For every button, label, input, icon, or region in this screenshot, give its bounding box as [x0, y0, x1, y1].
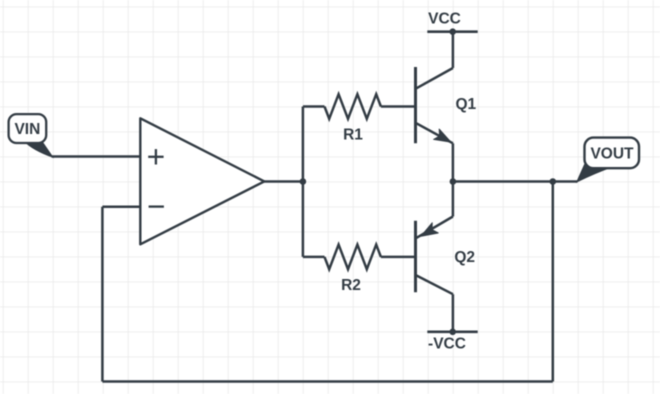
wire feedback from op-amp inverting input [102, 206, 140, 209]
wire branch to R1 [303, 105, 325, 108]
label Q1 [455, 96, 476, 113]
wire feedback right vertical [552, 182, 555, 382]
label R1 [343, 127, 363, 144]
svg-text:VCC: VCC [428, 10, 461, 27]
node junction Q1/Q2 output [450, 178, 457, 185]
node feedback junction [550, 178, 557, 185]
wire feedback left vertical [101, 207, 104, 382]
power VCC rail [427, 30, 477, 33]
svg-text:R2: R2 [341, 277, 361, 294]
wire Q1 collector to VCC [452, 32, 455, 68]
node VIN callout [9, 114, 53, 157]
svg-text:Q2: Q2 [454, 249, 475, 266]
node junction at op-amp output [300, 178, 307, 185]
wire Q2 emitter to output node [452, 182, 455, 217]
node -VCC junction [449, 329, 456, 336]
wire VIN to op-amp non-inverting input [52, 155, 141, 158]
wire Q2 collector to -VCC [452, 294, 455, 332]
wire R2 to Q2 base [381, 256, 414, 259]
label -VCC [428, 335, 466, 352]
wire branch vertical (R1/R2 split) [302, 107, 305, 257]
label VCC [428, 10, 461, 27]
wire op-amp output to branch node [264, 180, 303, 183]
label Q2 [454, 249, 475, 266]
node VCC junction [449, 28, 456, 35]
transistor Q2 [416, 217, 453, 295]
resistor R2 [325, 245, 381, 270]
wire branch to R2 [303, 256, 325, 259]
power -VCC rail [427, 330, 477, 333]
node VOUT callout [577, 138, 639, 182]
svg-text:R1: R1 [343, 127, 363, 144]
resistor R1 [325, 94, 381, 119]
transistor Q1 [416, 67, 453, 143]
wire Q1 emitter to output node [452, 143, 455, 181]
label R2 [341, 277, 361, 294]
wire R1 to Q1 base [381, 105, 414, 108]
svg-text:VOUT: VOUT [590, 146, 634, 163]
svg-text:VIN: VIN [14, 121, 40, 138]
op-amp U1 [140, 118, 264, 244]
wire feedback bottom horizontal [102, 380, 552, 383]
svg-text:-VCC: -VCC [428, 335, 466, 352]
wire output node to VOUT [453, 180, 578, 183]
svg-text:Q1: Q1 [455, 96, 476, 113]
